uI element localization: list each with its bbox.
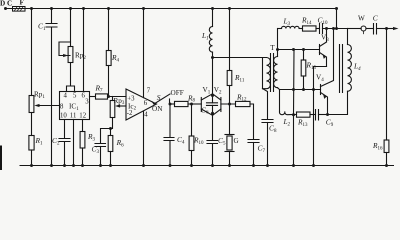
node bus x229 — [228, 164, 231, 167]
capacitor C output — [374, 24, 377, 35]
resistor R12 horizontal — [236, 101, 251, 106]
fuse F — [13, 7, 26, 12]
wire R11 to crystal — [229, 86, 231, 135]
svg-text:W: W — [358, 15, 365, 23]
wire L1 bottom to V pair — [212, 52, 214, 94]
transformer T left winding — [263, 58, 271, 89]
node bus x31 — [30, 164, 33, 167]
svg-text:C: C — [373, 14, 378, 23]
wire IC1 pin 11 — [73, 120, 75, 166]
wire IC1 pin 12 — [82, 120, 84, 132]
IC1 box — [60, 92, 90, 120]
svg-text:10: 10 — [60, 113, 67, 120]
node R15 bottom — [302, 88, 305, 91]
wire pin 8 to Rp1 wiper — [37, 105, 60, 107]
wire T primary side to C8 — [263, 58, 268, 120]
wire switch to R8 — [170, 103, 175, 105]
svg-text:4: 4 — [64, 93, 68, 100]
transformer T core — [271, 54, 274, 92]
transistor V1 — [200, 98, 202, 112]
node V4 collector — [332, 27, 335, 30]
crystal G — [225, 134, 234, 136]
resistor R6 — [110, 129, 112, 136]
node top bus x108 — [107, 7, 110, 10]
potentiometer Rp2 — [68, 47, 73, 63]
node bus x267 — [266, 164, 269, 167]
transistor V3 — [319, 45, 321, 55]
wire V3 base — [278, 49, 320, 51]
wire C5 branch — [212, 114, 214, 166]
inductor L3 — [282, 26, 300, 28]
node V pair bottom — [211, 112, 214, 115]
wire L1 tap to transformer — [213, 57, 263, 59]
wire C10 to node — [323, 28, 348, 30]
resistor R8 horizontal — [175, 101, 189, 106]
potentiometer Rp1 — [29, 96, 34, 113]
terminal dot DC input — [4, 7, 7, 10]
svg-text:3: 3 — [85, 99, 89, 106]
wire pin 4 — [143, 111, 145, 165]
svg-text:8: 8 — [60, 104, 64, 111]
capacitor C1 — [46, 24, 57, 28]
node V3 collector — [325, 27, 328, 30]
node bus x313 — [312, 164, 315, 167]
wire C4 branch — [169, 104, 171, 166]
node x110 y128 — [109, 127, 112, 130]
capacitor C5 — [207, 141, 218, 144]
resistor R1 — [29, 136, 34, 151]
svg-text:+3: +3 — [127, 96, 135, 103]
wire pin 3 to resistor R7 — [90, 96, 96, 98]
wire x70 upper — [70, 9, 72, 47]
capacitor C9 — [316, 110, 319, 121]
node bus x82 — [81, 164, 84, 167]
node bus x384 — [385, 164, 388, 167]
wire R7 to op-amp input — [108, 96, 127, 98]
transistor V4 — [320, 85, 322, 95]
scan artifact bottom-left corner — [0, 147, 2, 171]
capacitor C3 — [95, 144, 106, 147]
transformer T right winding — [274, 57, 278, 88]
capacitor C8 — [262, 120, 273, 123]
wire R10 branch — [191, 104, 193, 136]
inductor L4 — [348, 45, 352, 92]
node bus x110 — [109, 164, 112, 167]
capacitor C10 — [320, 24, 323, 34]
wire x293 feedback riser — [293, 50, 296, 115]
inductor L1 — [209, 27, 212, 53]
svg-text:T: T — [270, 44, 275, 52]
node pin7 bus — [142, 7, 145, 10]
svg-text:-2: -2 — [127, 110, 133, 117]
wire op-amp output — [153, 102, 155, 104]
wire top bus — [6, 8, 337, 10]
resistor R7 horizontal — [96, 94, 108, 99]
node L1 tap — [211, 56, 214, 59]
node bus x253 — [252, 164, 255, 167]
node bus x169 — [169, 164, 172, 167]
switch contact ON — [169, 99, 171, 104]
node bus x191 — [190, 164, 193, 167]
node top bus x70 — [69, 7, 72, 10]
wire x31 lower — [31, 150, 33, 166]
node x293 mid — [292, 88, 295, 91]
node V1 base — [190, 103, 193, 106]
node bus x51 — [50, 164, 53, 167]
node x229 bus — [228, 7, 231, 10]
output arrow — [387, 28, 395, 30]
wire x108 upper — [108, 9, 110, 51]
L4 core lines — [340, 45, 343, 93]
resistor R14 horizontal — [303, 26, 317, 31]
resistor R13 horizontal — [294, 114, 297, 116]
svg-text:ON: ON — [152, 105, 163, 113]
node top bus x51 — [50, 7, 53, 10]
switch S lever — [154, 94, 170, 104]
node bus x212 — [211, 164, 214, 167]
wire to W — [348, 28, 362, 30]
wire x31 mid — [31, 113, 33, 136]
wire C to output node — [377, 28, 387, 30]
resistor R11 — [227, 71, 232, 86]
node V4 base junction — [312, 88, 315, 91]
svg-text:11: 11 — [70, 113, 77, 120]
wire branch to C3 — [101, 129, 111, 144]
wire L4 top — [347, 29, 349, 45]
wire left branch x31 upper — [31, 9, 33, 96]
potentiometer Rp3 — [112, 97, 114, 101]
wire R12 to C7 — [250, 104, 254, 140]
wire L1 top — [212, 9, 214, 27]
capacitor C7 — [248, 140, 259, 143]
wire x51 with C1 — [51, 9, 53, 166]
capacitor C4 — [164, 138, 174, 141]
capacitor C6 — [207, 103, 218, 106]
node V3 base junction — [276, 48, 279, 51]
node V pair top — [211, 94, 214, 97]
wire W to C — [366, 28, 374, 30]
wire T secondary bottom to L2 — [278, 88, 280, 112]
wire x313 to bus — [313, 90, 315, 166]
inductor L2 — [279, 112, 293, 115]
node bus x63 — [63, 164, 66, 167]
svg-text:5: 5 — [73, 93, 77, 100]
node C4 tap — [169, 103, 172, 106]
microphone W — [361, 26, 366, 31]
node bus x293 — [292, 164, 295, 167]
resistor R3 — [80, 132, 85, 149]
wire bottom bus — [20, 165, 394, 167]
node top bus right end — [335, 7, 338, 10]
svg-text:OFF: OFF — [171, 89, 184, 97]
node top bus x83 — [82, 7, 85, 10]
resistor R10 — [189, 136, 194, 151]
wire L3 to R14 — [299, 28, 302, 30]
node x293 top — [292, 48, 295, 51]
capacitor C2 — [59, 139, 70, 142]
node L1 bus — [211, 7, 214, 10]
wire B+ from top bus — [336, 9, 338, 29]
wire x108 lower to R7 node — [108, 66, 110, 97]
node R7 output — [107, 95, 110, 98]
resistor R15 — [303, 50, 305, 61]
wire x229 upper — [229, 9, 231, 71]
svg-text:D C: D C — [0, 0, 12, 8]
resistor R4 — [106, 51, 111, 66]
svg-text:S: S — [157, 93, 161, 102]
wire output to R16 — [386, 29, 388, 141]
node bus x143 — [142, 164, 145, 167]
node V4 emitter C9 — [326, 113, 329, 116]
op-amp IC2 triangle — [126, 89, 157, 120]
wire R8 to V1 base — [188, 103, 201, 105]
wire x293 to bus — [293, 115, 295, 166]
resistor R16 — [384, 140, 389, 153]
wire emitter node to L4 bottom — [328, 91, 348, 114]
node bus x73 — [72, 164, 75, 167]
svg-text:12: 12 — [79, 113, 86, 120]
node R11 crystal tap — [228, 103, 231, 106]
node top bus x31 — [30, 7, 33, 10]
node L2 right — [292, 113, 295, 116]
wire Rp3 bottom to node — [111, 118, 113, 129]
svg-text:4: 4 — [144, 112, 148, 119]
wire IC1 pin 10 — [64, 120, 66, 166]
node R15 top — [302, 48, 305, 51]
transistor V2 — [220, 98, 222, 112]
wire V4 base rail — [280, 89, 321, 91]
svg-text:F: F — [20, 0, 25, 7]
wire top feed rail y28 — [278, 28, 282, 30]
node bus x100 — [99, 164, 102, 167]
svg-text:G: G — [234, 137, 239, 145]
node B+ feed — [335, 27, 338, 30]
svg-text:6: 6 — [144, 100, 148, 107]
wire T secondary top riser — [277, 29, 279, 57]
wire V2 base right — [221, 103, 236, 105]
svg-text:7: 7 — [147, 88, 151, 95]
wire R14 to C10 — [316, 28, 320, 30]
wire pin 7 — [143, 9, 145, 98]
wire x70 pot to bracket pins 4,5 — [67, 63, 75, 92]
wire V3 emitter to V4 base node — [314, 67, 327, 90]
wire x83 to pin 6 — [83, 9, 85, 92]
node output — [385, 27, 388, 30]
